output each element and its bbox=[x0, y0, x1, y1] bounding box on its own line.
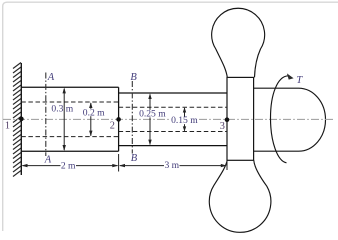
dimension arrow 0.25 m bbox=[149, 95, 151, 145]
torque arrowhead bbox=[287, 73, 294, 79]
svg-text:0.3 m: 0.3 m bbox=[51, 103, 73, 114]
svg-text:1: 1 bbox=[5, 121, 10, 132]
wall hatching bbox=[13, 63, 21, 177]
label 0.2 m bbox=[83, 109, 105, 116]
label 0.25 m bbox=[139, 110, 166, 118]
hub block bbox=[227, 77, 254, 160]
svg-text:0.25 m: 0.25 m bbox=[139, 108, 166, 119]
dimension arrow 0.15 m bbox=[184, 108, 186, 131]
label 0.15 m bbox=[171, 117, 199, 125]
extension line below hub bbox=[226, 161, 228, 170]
dimension arrow 0.3 m bbox=[63, 89, 65, 150]
svg-text:0.15 m: 0.15 m bbox=[171, 115, 198, 126]
label 2 m bbox=[61, 162, 77, 169]
svg-text:B: B bbox=[130, 72, 137, 83]
inner bore dashed segment 2 (0.15 m ID) bbox=[119, 107, 227, 131]
centerline bbox=[3, 118, 335, 120]
spinner dome at shaft end bbox=[254, 88, 326, 151]
node 3 bbox=[225, 117, 230, 122]
extension line below step bbox=[118, 154, 120, 172]
svg-text:2: 2 bbox=[110, 121, 115, 132]
dimension line 2 m bbox=[23, 165, 118, 167]
svg-text:B: B bbox=[131, 153, 138, 164]
node 2 bbox=[116, 117, 121, 122]
svg-text:3: 3 bbox=[220, 121, 225, 132]
shaft segment 1 outline (0.3 m OD) bbox=[21, 87, 118, 151]
inner bore dashed segment 1 (0.2 m ID) bbox=[21, 102, 118, 137]
propeller blade bottom bbox=[209, 160, 271, 232]
shaft segment 2 outline (0.25 m OD) bbox=[119, 93, 227, 146]
section line A bbox=[45, 73, 47, 157]
svg-text:A: A bbox=[44, 155, 52, 166]
wall face line bbox=[20, 63, 22, 175]
torque arrow loop bbox=[271, 76, 289, 163]
dimension line 3 m bbox=[120, 165, 226, 167]
section line B bbox=[131, 81, 133, 154]
svg-text:0.2 m: 0.2 m bbox=[83, 107, 105, 118]
svg-text:A: A bbox=[47, 72, 55, 83]
dimension arrow 0.2 m bbox=[90, 103, 92, 136]
label 3 m bbox=[164, 161, 180, 168]
svg-text:3 m: 3 m bbox=[164, 160, 179, 171]
svg-text:2 m: 2 m bbox=[61, 161, 76, 172]
propeller blade top bbox=[212, 8, 265, 77]
node 1 bbox=[19, 117, 24, 122]
